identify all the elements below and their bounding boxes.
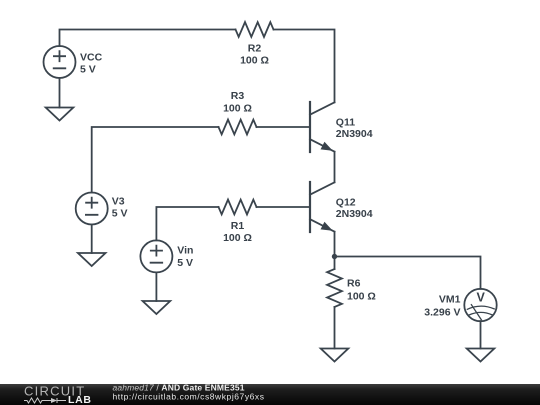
- svg-text:R3: R3: [231, 90, 245, 102]
- svg-text:VM1: VM1: [439, 294, 461, 306]
- resistor R6: [327, 269, 342, 307]
- svg-text:R2: R2: [248, 43, 262, 55]
- ground under V3: [78, 253, 106, 266]
- wire V3 bottom: [91, 225, 93, 254]
- ground under Vin: [143, 301, 171, 314]
- wire VCC bottom: [59, 78, 61, 108]
- svg-text:LAB: LAB: [68, 394, 92, 405]
- svg-text:5 V: 5 V: [112, 208, 128, 220]
- resistor R3: [219, 120, 257, 135]
- footer credit text: [113, 382, 265, 401]
- svg-text:3.296 V: 3.296 V: [424, 306, 460, 318]
- ground under R6: [321, 349, 349, 362]
- svg-text:Vin: Vin: [177, 245, 193, 257]
- wire node to VM1: [335, 257, 481, 289]
- wire R2 to Q11 collector: [274, 30, 335, 103]
- wire Q11 emitter to Q12 collector: [334, 152, 336, 183]
- ground under VCC: [46, 108, 74, 121]
- svg-text:V: V: [477, 290, 486, 304]
- ground under VM1: [467, 349, 495, 362]
- voltage source Vin: [140, 240, 172, 272]
- resistor R2: [236, 22, 274, 37]
- svg-text:2N3904: 2N3904: [336, 208, 373, 220]
- svg-text:100 Ω: 100 Ω: [223, 232, 252, 244]
- wire VM1 bottom: [480, 321, 482, 348]
- wire Vin top to R1: [156, 207, 218, 240]
- transistor Q11: [310, 102, 335, 152]
- wire R1 to Q12 base: [257, 206, 311, 208]
- svg-text:http://circuitlab.com/cs8wkpj6: http://circuitlab.com/cs8wkpj67y6xs: [113, 391, 265, 401]
- CircuitLab logo squiggle (resistor + diode): [24, 398, 66, 403]
- wire Vin bottom: [155, 272, 157, 301]
- voltage source VCC: [44, 46, 76, 78]
- wire Q12 emitter to node: [334, 232, 336, 257]
- node junction dot: [332, 254, 337, 259]
- resistor R1: [219, 200, 257, 215]
- wire node to R6: [334, 257, 336, 270]
- svg-text:100 Ω: 100 Ω: [240, 55, 269, 67]
- svg-text:Q11: Q11: [336, 116, 355, 128]
- wire R6 to ground: [334, 307, 336, 349]
- wire R3 to Q11 base: [257, 126, 311, 128]
- svg-text:Q12: Q12: [336, 196, 356, 208]
- svg-text:100 Ω: 100 Ω: [223, 102, 252, 114]
- wire VCC top to R2: [60, 30, 236, 47]
- transistor Q12: [310, 182, 335, 232]
- CircuitLab logo wordmark: [24, 383, 92, 405]
- svg-text:V3: V3: [112, 195, 125, 207]
- wire V3 top to R3: [92, 127, 219, 193]
- svg-text:5 V: 5 V: [177, 257, 193, 269]
- voltage source V3: [76, 193, 108, 225]
- svg-text:2N3904: 2N3904: [336, 128, 373, 140]
- voltmeter VM1: [464, 289, 496, 321]
- svg-text:VCC: VCC: [80, 51, 103, 63]
- svg-text:R1: R1: [231, 220, 245, 232]
- svg-text:R6: R6: [347, 278, 361, 290]
- svg-text:5 V: 5 V: [80, 64, 96, 76]
- svg-text:100 Ω: 100 Ω: [347, 290, 376, 302]
